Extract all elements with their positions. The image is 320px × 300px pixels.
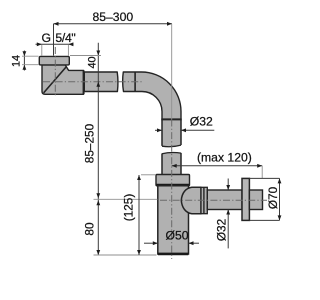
- svg-text:Ø70: Ø70: [266, 186, 280, 209]
- svg-text:Ø50: Ø50: [165, 229, 188, 243]
- svg-text:Ø32: Ø32: [214, 219, 228, 241]
- svg-text:Ø32: Ø32: [190, 114, 213, 128]
- svg-text:85–300: 85–300: [92, 10, 133, 24]
- svg-text:14: 14: [11, 55, 23, 67]
- svg-text:85–250: 85–250: [83, 123, 97, 163]
- svg-text:(125): (125): [122, 194, 136, 222]
- svg-text:80: 80: [83, 222, 97, 236]
- svg-text:40: 40: [86, 56, 98, 68]
- svg-text:(max 120): (max 120): [197, 150, 252, 164]
- svg-text:G: G: [42, 31, 51, 45]
